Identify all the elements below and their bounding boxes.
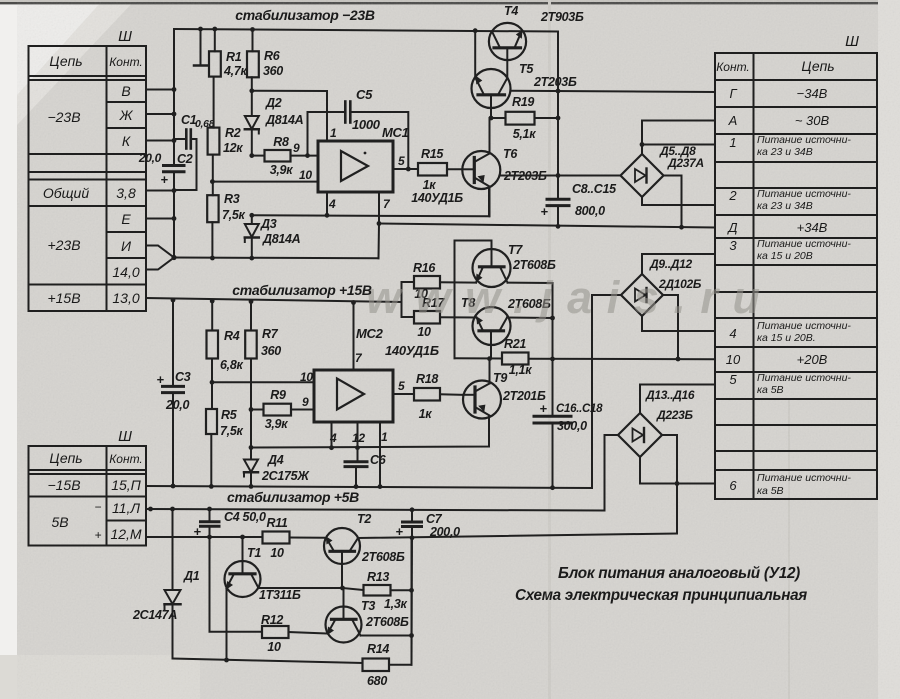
resistor R11 (263, 516, 325, 560)
wire bottom rail (173, 659, 363, 664)
wire pin1 MC1 (252, 91, 327, 141)
svg-text:6,8к: 6,8к (220, 358, 243, 372)
svg-text:200,0: 200,0 (429, 525, 460, 539)
junction dots +5V section (148, 481, 679, 662)
svg-text:R2: R2 (225, 126, 241, 140)
svg-text:Конт.: Конт. (716, 60, 750, 74)
svg-text:10: 10 (417, 325, 431, 339)
svg-text:12к: 12к (223, 141, 243, 155)
svg-text:R4: R4 (224, 329, 240, 343)
svg-text:С6: С6 (370, 453, 387, 467)
svg-text:1000: 1000 (352, 117, 381, 132)
svg-text:~ 30В: ~ 30В (795, 113, 830, 128)
svg-text:Питание источни-: Питание источни- (757, 238, 851, 250)
svg-text:3,9к: 3,9к (270, 163, 293, 177)
svg-text:2С175Ж: 2С175Ж (261, 469, 310, 483)
svg-text:R11: R11 (266, 516, 287, 530)
svg-text:−23В: −23В (47, 109, 80, 125)
svg-text:С2: С2 (177, 152, 193, 166)
svg-text:С4 50,0: С4 50,0 (224, 510, 266, 524)
svg-text:R13: R13 (367, 570, 389, 584)
resistor R6 (247, 30, 283, 91)
capacitor C3 (156, 300, 190, 486)
resistor R14 (363, 538, 412, 688)
wire bridge D13 top to row 5 (640, 385, 715, 414)
svg-text:5: 5 (398, 379, 405, 393)
resistor R4 (207, 301, 244, 409)
transistor Q T7 2Т608Б (473, 243, 556, 287)
svg-text:R19: R19 (512, 95, 534, 109)
svg-text:Д13..Д16: Д13..Д16 (645, 388, 695, 402)
wire -34V rail vertical (557, 32, 559, 200)
wire bridge bottom to row 2 (642, 197, 715, 205)
transistor Q T3 2Т608Б (326, 588, 409, 643)
svg-text:+34В: +34В (797, 220, 828, 235)
svg-text:ка 23 и 34В: ка 23 и 34В (757, 146, 813, 158)
svg-text:С8..С15: С8..С15 (572, 182, 617, 196)
svg-text:Общий: Общий (43, 185, 89, 201)
wire pin10 MC1 (212, 181, 318, 183)
svg-text:Д3: Д3 (260, 217, 277, 231)
chassis bar (194, 64, 207, 67)
svg-text:Д9..Д12: Д9..Д12 (649, 257, 693, 271)
svg-text:Цепь: Цепь (49, 450, 82, 466)
svg-text:R9: R9 (270, 388, 286, 402)
svg-text:Цепь: Цепь (49, 53, 82, 69)
op-amp U1 MC1 140УД1Б (293, 125, 409, 211)
svg-text:Ш: Ш (845, 33, 859, 50)
svg-text:4: 4 (328, 197, 336, 211)
wire pin7 (378, 192, 380, 224)
svg-text:Ш: Ш (118, 428, 132, 445)
svg-text:4: 4 (329, 431, 337, 445)
svg-text:Питание источни-: Питание источни- (757, 320, 851, 332)
svg-text:2Т203Б: 2Т203Б (533, 75, 577, 89)
wire bridge D9 bottom to row 4 (642, 316, 715, 331)
resistor R7 (245, 302, 281, 410)
wire pin4 MC2 (331, 422, 333, 448)
resistor R15 (411, 147, 463, 205)
transistor Q T5 2Т203Б (472, 31, 577, 118)
svg-text:И: И (121, 238, 132, 254)
wire bridge top to rows А and 1 (641, 121, 643, 155)
svg-text:5: 5 (729, 372, 737, 387)
svg-text:+: + (193, 524, 201, 539)
svg-text:Г: Г (729, 86, 737, 101)
bridge D13..D16 Д223Б (618, 388, 695, 457)
wire stub row В (146, 89, 174, 91)
wire bridge D9 top to row 3 (642, 254, 715, 274)
svg-text:1к: 1к (423, 178, 437, 192)
svg-text:А: А (728, 113, 738, 128)
svg-text:20,0: 20,0 (165, 398, 189, 412)
svg-text:1,3к: 1,3к (384, 597, 407, 611)
wire pin5 (393, 168, 418, 170)
section label: стабилизатор -23В (235, 7, 375, 23)
svg-text:R15: R15 (421, 147, 444, 161)
transistor Q T4 2Т903Б (489, 4, 584, 78)
title (515, 565, 808, 604)
diode D2 zener (245, 91, 304, 156)
svg-text:2Т903Б: 2Т903Б (540, 10, 584, 24)
svg-text:7,5к: 7,5к (222, 208, 245, 222)
wire C7 column down (411, 538, 414, 665)
svg-text:360: 360 (263, 64, 283, 78)
resistor R2 (208, 126, 244, 195)
wire pin5 MC2 (393, 393, 414, 395)
svg-text:1: 1 (330, 126, 337, 140)
wire stub row Ж (146, 113, 174, 115)
wire bridge D13 right (662, 434, 677, 436)
wire right column of +15V (552, 318, 554, 416)
svg-text:+: + (539, 401, 547, 416)
capacitor C7 (395, 510, 460, 539)
svg-text:−: − (94, 500, 101, 514)
svg-text:С5: С5 (356, 87, 373, 102)
svg-text:R18: R18 (416, 372, 438, 386)
capacitor C4 (193, 509, 266, 539)
svg-text:ка 5В: ка 5В (757, 485, 784, 497)
transistor Q T8 2Т608Б (461, 296, 551, 359)
resistor R17 (402, 282, 477, 339)
svg-text:R1: R1 (226, 50, 242, 64)
svg-text:Д814А: Д814А (265, 113, 304, 127)
wire T6 emitter row to bridge (500, 175, 620, 177)
wire -15V rail (146, 486, 592, 488)
diode D3 zener (245, 216, 301, 259)
transistor Q T9 2Т201Б (463, 359, 546, 419)
svg-text:3,8: 3,8 (116, 185, 136, 201)
svg-text:7,5к: 7,5к (220, 424, 243, 438)
transistor Q T1 1Т311Б (225, 537, 343, 660)
svg-text:Ж: Ж (119, 107, 134, 123)
wire stub row 3,8 (146, 190, 174, 192)
svg-text:+23В: +23В (47, 237, 80, 253)
wire stub row 13,0 / +15V rail start (146, 298, 402, 302)
svg-text:3: 3 (729, 238, 737, 253)
svg-text:680: 680 (367, 674, 387, 688)
svg-text:R5: R5 (221, 408, 238, 422)
svg-text:2С147А: 2С147А (132, 608, 177, 622)
svg-text:5: 5 (398, 154, 405, 168)
svg-text:ка 15 и 20В: ка 15 и 20В (757, 250, 813, 262)
svg-text:+: + (94, 528, 101, 542)
wire stub row Е (146, 218, 174, 220)
svg-text:Т3: Т3 (361, 599, 375, 613)
svg-text:2Т608Б: 2Т608Б (512, 258, 556, 272)
svg-text:Т9: Т9 (493, 371, 507, 385)
svg-text:R3: R3 (224, 192, 240, 206)
svg-text:Д237А: Д237А (667, 156, 704, 170)
resistor R9 (251, 388, 314, 431)
wire T3 collector to column (361, 635, 412, 637)
svg-text:Цепь: Цепь (801, 58, 834, 74)
svg-text:300,0: 300,0 (557, 419, 587, 433)
svg-text:Т7: Т7 (508, 243, 523, 257)
wire pin4 rail (326, 192, 328, 215)
svg-text:Д4: Д4 (267, 453, 284, 467)
wire R21 rail to row 10 (455, 357, 503, 359)
svg-text:5В: 5В (51, 514, 68, 530)
wire bridge D13 left (605, 434, 619, 436)
svg-text:+: + (156, 372, 164, 387)
svg-text:ка 5В: ка 5В (757, 384, 784, 396)
svg-text:R7: R7 (262, 327, 279, 341)
svg-text:360: 360 (261, 344, 281, 358)
svg-text:3,9к: 3,9к (265, 417, 288, 431)
svg-text:Д814А: Д814А (262, 232, 301, 246)
capacitor C6 (345, 453, 387, 486)
resistor R8 (252, 135, 318, 177)
svg-text:10: 10 (270, 546, 284, 560)
resistor R21 (502, 337, 532, 377)
connector table Ш (top-left) (29, 46, 147, 311)
node bus -23V vertical (173, 29, 175, 165)
svg-text:Ш: Ш (118, 28, 132, 45)
resistor R13 (343, 570, 412, 596)
svg-text:14,0: 14,0 (112, 264, 139, 280)
resistor R19 (490, 95, 559, 141)
svg-text:Т5: Т5 (519, 62, 534, 76)
wire fork rail (174, 257, 379, 260)
wire 11Л rail (5V minus) (146, 435, 605, 511)
section label: стабилизатор +15В (232, 282, 372, 298)
svg-text:−15В: −15В (47, 477, 80, 493)
bridge D5..D8 Д237А (621, 144, 704, 197)
svg-text:+: + (395, 524, 403, 539)
junction dots +15V section (171, 298, 681, 491)
bridge D9..D12 2Д102Б (621, 257, 702, 316)
capacitor C16..C18 (534, 401, 603, 488)
resistor R12 (261, 613, 326, 654)
wire riser to bridge D13 right (676, 435, 678, 534)
svg-text:Д2: Д2 (265, 96, 282, 110)
svg-text:+: + (540, 204, 548, 219)
svg-text:Д: Д (726, 220, 737, 235)
wire T7 collector to right column (508, 283, 553, 318)
svg-text:1: 1 (381, 430, 388, 444)
svg-text:R6: R6 (264, 49, 281, 63)
svg-text:Питание источни-: Питание источни- (757, 134, 851, 146)
svg-text:Схема электрическая принципиал: Схема электрическая принципиальная (515, 587, 808, 604)
wire bus lower part (173, 172, 175, 258)
svg-text:10: 10 (299, 168, 312, 182)
wire pin10 MC2 (212, 381, 314, 383)
wire bridge right to row Д rail (664, 176, 682, 228)
svg-text:15,П: 15,П (111, 477, 141, 493)
svg-text:стабилизатор −23В: стабилизатор −23В (235, 7, 375, 23)
diode D1 zener (132, 509, 200, 659)
svg-text:6: 6 (729, 478, 737, 493)
wire T8 collector to right column (507, 317, 553, 320)
svg-text:Т4: Т4 (504, 4, 518, 18)
wire fork row И (146, 246, 174, 258)
junction dots -23V section (171, 27, 684, 261)
svg-text:Питание источни-: Питание источни- (757, 372, 851, 384)
wire -15V riser to bridge D9 (591, 295, 593, 488)
svg-text:10: 10 (726, 352, 741, 367)
svg-text:12: 12 (352, 431, 365, 445)
svg-text:1Т311Б: 1Т311Б (259, 588, 301, 602)
svg-text:Т1: Т1 (247, 546, 261, 560)
svg-text:ка 15 и 20В.: ка 15 и 20В. (757, 332, 816, 344)
svg-text:R21: R21 (504, 337, 526, 351)
wire C4 column down to R12 (210, 537, 263, 632)
resistor R18 (414, 372, 463, 421)
wire pin1 MC2 (379, 422, 381, 486)
resistor R5 (206, 408, 243, 486)
resistor R1 (209, 29, 247, 128)
svg-text:Конт.: Конт. (109, 452, 143, 466)
svg-text:В: В (121, 83, 130, 99)
wire 12М rail (5V plus) left part (146, 536, 263, 538)
wire stub row К (146, 140, 174, 142)
svg-text:−34В: −34В (797, 86, 828, 101)
svg-text:13,0: 13,0 (112, 290, 139, 306)
svg-text:5,1к: 5,1к (513, 127, 536, 141)
svg-text:R14: R14 (367, 642, 389, 656)
svg-text:+: + (160, 172, 168, 187)
svg-text:стабилизатор +15В: стабилизатор +15В (232, 282, 372, 298)
svg-text:С7: С7 (426, 512, 443, 526)
svg-text:2Т608Б: 2Т608Б (361, 550, 405, 564)
svg-text:К: К (122, 133, 131, 149)
svg-text:R12: R12 (261, 613, 283, 627)
wire bridge D13 bottom (640, 457, 677, 484)
svg-text:МС2: МС2 (356, 326, 384, 341)
connector table Ш (right) (715, 53, 877, 499)
svg-text:2: 2 (728, 188, 737, 203)
svg-text:R8: R8 (273, 135, 289, 149)
svg-text:С16..С18: С16..С18 (556, 403, 603, 415)
svg-text:1,1к: 1,1к (509, 363, 532, 377)
svg-text:140УД1Б: 140УД1Б (385, 343, 439, 358)
svg-text:1к: 1к (419, 407, 433, 421)
svg-text:1: 1 (729, 135, 736, 150)
svg-text:140УД1Б: 140УД1Б (411, 191, 463, 205)
svg-text:ка 23 и 34В: ка 23 и 34В (757, 200, 813, 212)
svg-text:+20В: +20В (797, 352, 828, 367)
svg-text:Блок питания аналоговый (У12): Блок питания аналоговый (У12) (558, 565, 800, 582)
wire row 6 stub (677, 483, 715, 485)
svg-text:2Т608Б: 2Т608Б (365, 615, 409, 629)
svg-text:800,0: 800,0 (575, 204, 605, 218)
wire bridge D9 right to +20V rail (663, 295, 678, 359)
svg-text:9: 9 (293, 141, 300, 155)
svg-text:Конт.: Конт. (109, 55, 143, 69)
wire T2 emitter to C7 node and +5V rail (358, 534, 677, 539)
capacitor C2 (138, 151, 193, 187)
svg-text:Д223Б: Д223Б (656, 408, 693, 422)
svg-text:С3: С3 (175, 370, 191, 384)
svg-text:4: 4 (729, 326, 736, 341)
svg-text:11,Л: 11,Л (112, 500, 140, 516)
svg-text:Питание источни-: Питание источни- (757, 188, 851, 200)
svg-text:10: 10 (267, 640, 281, 654)
wire pin7 MC2 (353, 303, 355, 371)
capacitor C5 (345, 87, 380, 132)
svg-text:9: 9 (302, 395, 309, 409)
op-amp U2 MC2 140УД1Б (300, 326, 439, 445)
transistor Q T2 2Т608Б (324, 512, 405, 588)
svg-text:Т6: Т6 (503, 147, 518, 161)
wire chassis stub (200, 29, 202, 66)
wire C5 feedback (307, 112, 309, 156)
wire pin4 rail MC2 (251, 416, 489, 448)
svg-text:20,0: 20,0 (138, 151, 162, 165)
wire row Г (511, 91, 716, 92)
wire fork row 14,0 (146, 258, 174, 270)
svg-text:4,7к: 4,7к (223, 64, 247, 78)
svg-text:стабилизатор +5В: стабилизатор +5В (227, 489, 359, 505)
svg-text:Е: Е (121, 211, 131, 227)
svg-text:Питание источни-: Питание источни- (757, 472, 851, 484)
resistor R3 (207, 192, 245, 258)
wire pin7 to row Д rail (379, 224, 715, 228)
capacitor C1 bracket wiring (174, 138, 186, 140)
wire bridge D9 left to -15V riser (592, 294, 621, 296)
wire top rail -23V (174, 29, 558, 32)
svg-text:12,М: 12,М (110, 526, 141, 542)
resistor R16 (402, 261, 477, 301)
wire pin7 down to fork rail (378, 224, 381, 259)
diode D4 zener (244, 410, 310, 487)
svg-text:Т2: Т2 (357, 512, 371, 526)
connector table Ш (bottom-left) (29, 446, 147, 546)
svg-text:Д1: Д1 (183, 569, 200, 583)
svg-text:10: 10 (300, 370, 313, 384)
svg-text:+15В: +15В (47, 290, 80, 306)
watermark www.jais.ru (366, 272, 764, 323)
wire pin12 and C6 (357, 422, 359, 462)
section label: стабилизатор +5В (227, 489, 359, 505)
wire T7 base loop (455, 241, 492, 359)
capacitor C1 (181, 113, 215, 149)
transistor Q T6 2Т203Б (462, 118, 547, 216)
svg-text:МС1: МС1 (382, 125, 409, 140)
capacitor C8..C15 (540, 182, 617, 226)
